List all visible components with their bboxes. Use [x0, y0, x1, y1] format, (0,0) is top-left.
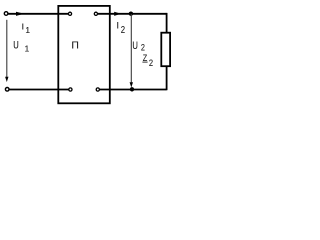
load impedance Z2 rectangle — [161, 33, 170, 66]
junction node top — [129, 12, 133, 16]
svg-text:Z: Z — [143, 52, 148, 63]
voltage arrow U2 — [130, 14, 132, 84]
current arrow I1 — [16, 12, 24, 16]
port pin circle 4 bottom-right inside box — [96, 88, 99, 91]
svg-text:1: 1 — [25, 25, 30, 35]
terminal circle input bottom — [5, 88, 9, 92]
port pin circle 3 top-right inside box — [94, 12, 97, 15]
svg-text:U: U — [13, 40, 19, 51]
junction node bottom — [130, 87, 134, 91]
wire top-right from box to load — [98, 13, 167, 15]
svg-text:I: I — [117, 20, 119, 30]
terminal circle input top — [4, 12, 8, 16]
wire bottom-right from box to load — [100, 89, 167, 91]
svg-text:2: 2 — [149, 57, 153, 68]
wire load bottom lead — [166, 66, 168, 90]
svg-text:U: U — [132, 40, 138, 51]
svg-text:2: 2 — [121, 24, 125, 35]
wire top-left — [8, 13, 68, 15]
svg-text:1: 1 — [25, 43, 30, 53]
svg-text:П: П — [71, 41, 78, 52]
current arrow I2 — [114, 12, 121, 16]
wire load top lead — [166, 13, 168, 33]
port pin circle 2 bottom-left inside box — [69, 88, 72, 91]
wire bottom-left — [9, 89, 68, 91]
svg-text:I: I — [22, 22, 24, 32]
port pin circle 1 top-left inside box — [68, 12, 71, 15]
voltage arrow U1 — [6, 20, 8, 78]
two-port network box (quadripole) — [58, 6, 110, 103]
